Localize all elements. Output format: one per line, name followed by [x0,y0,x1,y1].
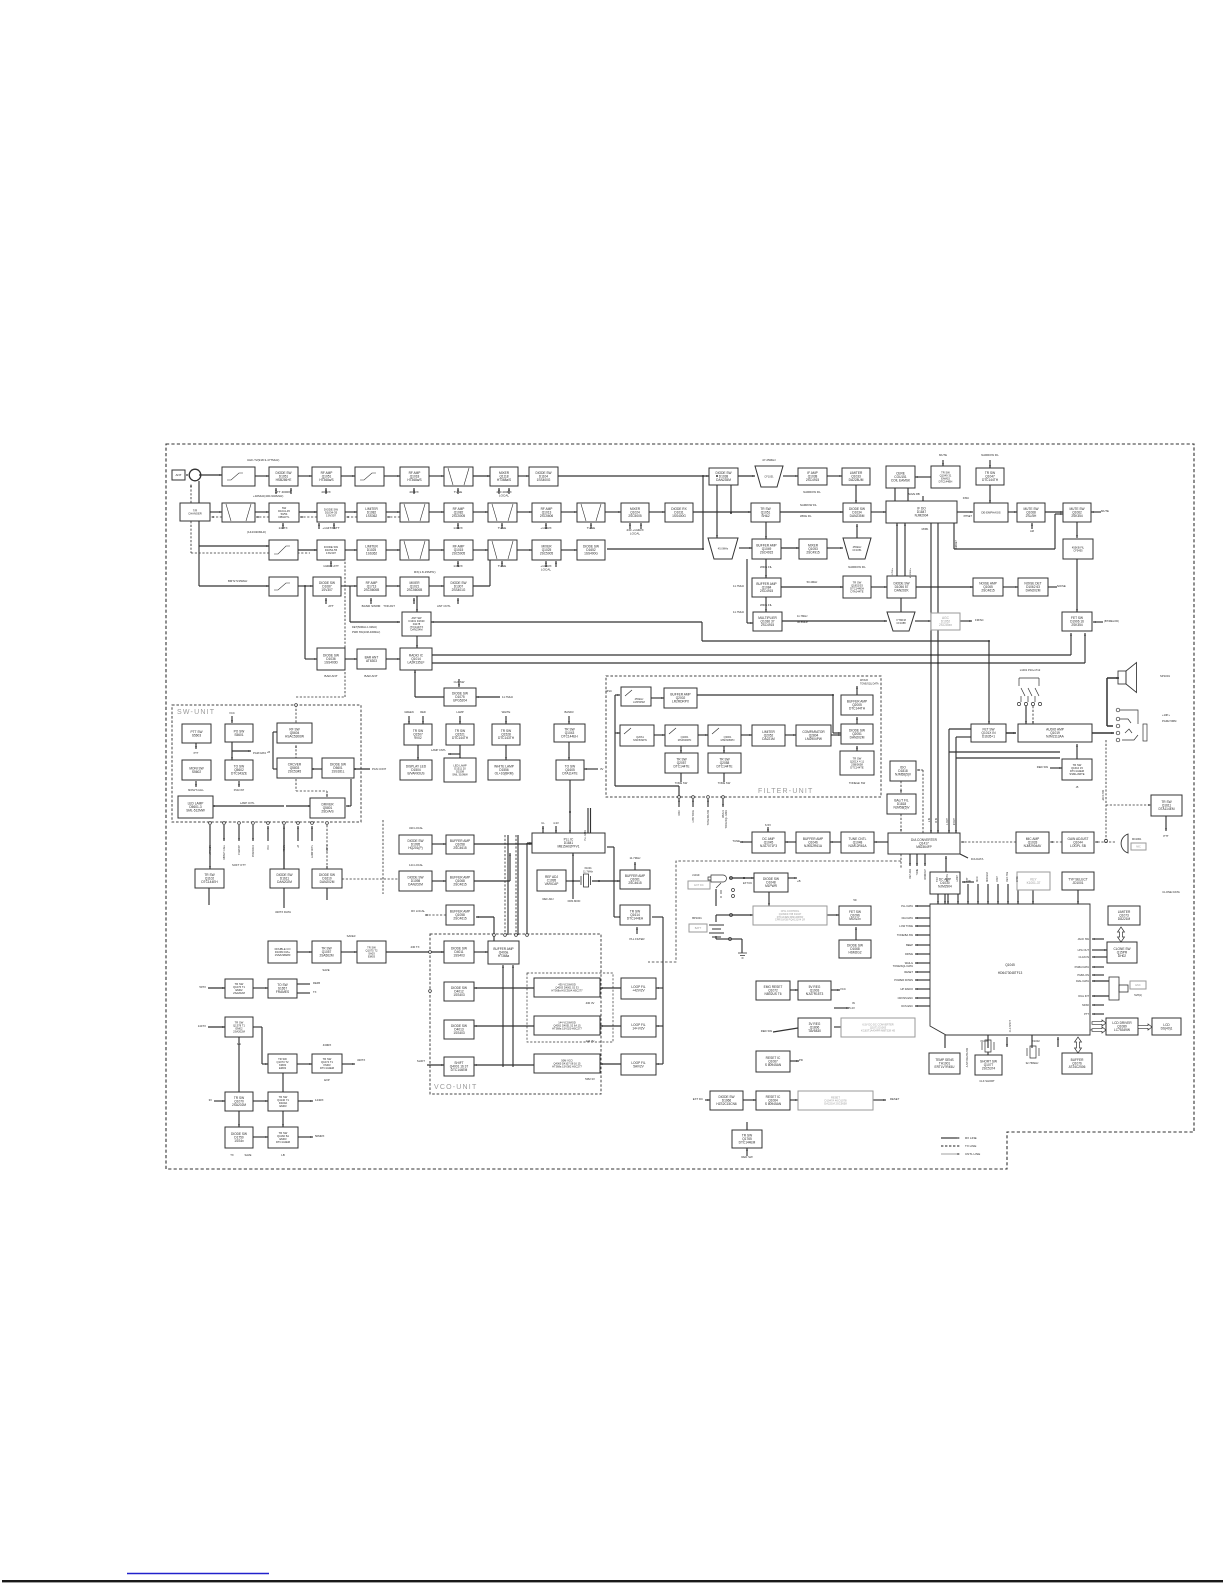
svg-text:DAN202M: DAN202M [408,883,423,887]
svg-text:DISC: DISC [678,810,681,816]
svg-text:EM03: EM03 [279,1104,287,1108]
svg-text:DTC143TH: DTC143TH [498,736,515,740]
svg-text:2SC5374: 2SC5374 [982,1067,996,1071]
svg-text:45.0MHz: 45.0MHz [718,547,729,551]
svg-text:MODEM: MODEM [986,872,989,882]
svg-text:CHANGER: CHANGER [188,512,201,516]
svg-text:DAN202M: DAN202M [850,736,865,740]
svg-text:EM03: EM03 [368,955,376,959]
svg-text:50MRX: 50MRX [315,1134,324,1138]
svg-text:430 TX: 430 TX [411,945,420,949]
svg-text:2SA202M: 2SA202M [232,1103,246,1107]
svg-text:430RX: 430RX [323,1043,332,1047]
svg-text:2SC4915: 2SC4915 [806,551,820,555]
svg-text:HD6473048TF13: HD6473048TF13 [998,971,1023,975]
svg-text:TXR ANT: TXR ANT [383,604,395,608]
svg-text:NJU7R15T3: NJU7R15T3 [806,992,824,996]
svg-text:DTA144TE: DTA144TE [850,590,863,594]
svg-text:MUTE: MUTE [1101,509,1109,513]
svg-text:EM03: EM03 [279,1066,287,1070]
svg-text:5D: 5D [853,899,856,902]
svg-text:DBGDTL: DBGDTL [279,515,290,519]
svg-text:1SS4x: 1SS4x [234,1139,244,1143]
svg-text:46.8MHz: 46.8MHz [797,620,808,624]
svg-text:CPRSU/GB PQA131V4 1R: CPRSU/GB PQA131V4 1R [775,919,805,922]
svg-text:EXT DC: EXT DC [743,882,752,885]
svg-text:SW-UNIT: SW-UNIT [177,709,215,716]
svg-text:HP RADIO: HP RADIO [901,987,914,991]
svg-text:SAVE: SAVE [245,1153,252,1157]
svg-text:PGN CONT: PGN CONT [372,767,387,771]
svg-text:2SC4615: 2SC4615 [453,883,467,887]
svg-text:VCC: VCC [840,987,846,991]
svg-text:PLL FILTER: PLL FILTER [629,937,644,941]
svg-text:BMT2 5/15MHz: BMT2 5/15MHz [228,579,248,583]
svg-text:430TX DATA: 430TX DATA [275,910,291,914]
svg-text:CNTL LINE: CNTL LINE [965,1152,980,1156]
svg-text:BP1001: BP1001 [692,916,702,920]
svg-text:PLL DATA: PLL DATA [584,830,587,841]
svg-text:DTC144TE: DTC144TE [850,766,864,770]
svg-text:TX: TX [230,1153,234,1157]
svg-text:ATT 400RX: ATT 400RX [275,490,291,494]
svg-text:TR 3V: TR 3V [284,845,286,852]
svg-text:TX3: TX3 [936,877,939,882]
svg-text:1SS403: 1SS403 [453,954,465,958]
svg-text:ANT CNTL: ANT CNTL [437,604,451,608]
svg-text:2SC5005: 2SC5005 [540,552,554,556]
svg-text:ATT KEY: ATT KEY [209,845,212,855]
svg-text:DA221M: DA221M [762,737,775,741]
svg-text:2SC4915: 2SC4915 [760,589,774,593]
svg-text:PGM2.5MM: PGM2.5MM [1162,719,1177,723]
svg-text:2SC4615: 2SC4615 [628,881,642,885]
svg-text:1SS362: 1SS362 [366,514,378,518]
svg-text:NB02US T6: NB02US T6 [765,992,782,996]
svg-text:DTC144EH: DTC144EH [201,880,218,884]
svg-text:TX LINE: TX LINE [965,1144,976,1148]
svg-text:TUNE: TUNE [732,839,740,843]
svg-text:2SC5005: 2SC5005 [452,514,466,518]
svg-text:DCS ENC: DCS ENC [901,1004,913,1008]
svg-text:PGM INT: PGM INT [234,789,245,792]
svg-text:47.25MHz: 47.25MHz [762,458,776,462]
svg-text:RX LOCAL: RX LOCAL [411,909,425,913]
svg-text:KC&5T1A434PR MBT528 H5: KC&5T1A434PR MBT528 H5 [861,1028,896,1032]
svg-text:BEEP: BEEP [906,943,913,947]
svg-text:1SS362: 1SS362 [366,552,378,556]
svg-text:DS(40)1: DS(40)1 [1161,1026,1173,1030]
svg-text:LOW TONE: LOW TONE [692,810,695,823]
svg-text:DAN235M: DAN235M [716,478,731,482]
svg-text:430 3V: 430 3V [586,1001,595,1005]
svg-text:MONI: MONI [1082,1003,1089,1007]
svg-text:2SK354: 2SK354 [1071,623,1083,627]
svg-text:PTT: PTT [1163,834,1169,838]
svg-text:UPG5204: UPG5204 [453,699,467,703]
svg-text:EXT DC: EXT DC [694,883,704,887]
svg-text:MSF509PN: MSF509PN [633,738,647,742]
svg-text:3V: 3V [209,1098,213,1102]
svg-text:VCC: VCC [229,711,235,715]
svg-text:AM DET: AM DET [955,539,958,548]
svg-text:SOFT OTT: SOFT OTT [232,863,246,867]
svg-text:DTC144EM: DTC144EM [739,1141,756,1145]
svg-text:ATT: ATT [328,604,334,608]
svg-text:GREEN: GREEN [404,710,413,714]
svg-text:SSML/ARTE: SSML/ARTE [1069,772,1084,776]
svg-text:X1005: X1005 [980,1039,988,1043]
svg-text:50TX: 50TX [199,985,206,989]
svg-text:DDS MOD: DDS MOD [568,899,581,903]
svg-text:MSF609PN: MSF609PN [678,738,692,742]
svg-text:400RX: 400RX [409,490,418,494]
svg-text:HSB286+E: HSB286+E [276,478,292,482]
svg-text:BAR ANT: BAR ANT [324,674,337,678]
svg-text:L1001 P10+1712: L1001 P10+1712 [1020,668,1041,672]
svg-text:S 80945AN: S 80945AN [765,1063,782,1067]
svg-text:2SK354: 2SK354 [1071,514,1083,518]
svg-text:1SV307: 1SV307 [326,551,336,555]
svg-text:DISC: DISC [963,496,969,500]
svg-text:NARROW FIL: NARROW FIL [803,490,821,494]
svg-text:EXT DC: EXT DC [693,1097,703,1101]
svg-text:2SC5606B: 2SC5606B [364,588,379,592]
svg-text:2SC4915: 2SC4915 [761,623,775,627]
svg-text:MONI/T-CALL: MONI/T-CALL [188,789,204,792]
svg-text:Q1045: Q1045 [1005,963,1015,967]
svg-text:MB15A02PFV1: MB15A02PFV1 [558,845,580,849]
svg-text:DA228UM: DA228UM [849,478,864,482]
svg-text:11.7MHz: 11.7MHz [630,856,642,860]
svg-text:2SC4615: 2SC4615 [981,589,995,593]
svg-text:CHG: CHG [1016,876,1019,882]
svg-text:DTC144TH: DTC144TH [982,478,999,482]
svg-text:R IN: R IN [936,818,938,823]
svg-text:NJU7071F3: NJU7071F3 [760,844,777,848]
svg-text:45.05MHz: 45.05MHz [910,568,912,578]
svg-text:DTC144EM: DTC144EM [276,1140,291,1144]
svg-text:HSAC5306W: HSAC5306W [285,735,304,739]
svg-text:M62364FP: M62364FP [916,845,932,849]
svg-text:LAMP CNTL: LAMP CNTL [240,801,255,805]
svg-text:11.7MHz: 11.7MHz [797,614,808,618]
svg-text:TUNE: TUNE [498,564,506,568]
svg-text:11.7MHz: 11.7MHz [502,695,514,699]
svg-text:NJM12R61A: NJM12R61A [848,844,867,848]
svg-text:DAN234M: DAN234M [411,628,423,632]
svg-text:LAMP: LAMP [456,710,464,714]
svg-text:6-5V: 6-5V [765,823,771,827]
svg-text:TUNE: TUNE [917,869,919,876]
svg-text:D1635+1: D1635+1 [982,735,995,739]
svg-text:TONE/SQL DATA: TONE/SQL DATA [860,683,879,686]
svg-text:+10P+: +10P+ [1162,713,1170,717]
svg-text:144RX: 144RX [315,1098,324,1102]
svg-text:CLK SHORT: CLK SHORT [979,1079,995,1083]
svg-text:DTC144EH: DTC144EH [939,480,953,484]
svg-text:HT368a/S: HT368a/S [407,478,421,482]
svg-text:LOW TONE: LOW TONE [899,924,913,928]
svg-text:1SS400G: 1SS400G [672,514,686,518]
svg-text:MOS/2x: MOS/2x [849,917,861,921]
svg-text:DTC144TH: DTC144TH [452,736,469,740]
svg-text:1SS400D: 1SS400D [324,661,338,665]
svg-text:LMF505M: LMF505M [633,700,645,704]
svg-text:DTC144EM: DTC144EM [320,1066,335,1070]
svg-text:MOB1: MOB1 [922,528,929,531]
svg-text:RX LINE: RX LINE [965,1136,977,1140]
svg-text:400RX: 400RX [321,490,330,494]
svg-text:WIDE FIL: WIDE FIL [760,603,773,607]
svg-text:NJM2113AA: NJM2113AA [1046,735,1065,739]
svg-text:1SV307: 1SV307 [321,588,333,592]
svg-text:TONE/ab SW: TONE/ab SW [849,781,866,785]
svg-text:LOGPL SB: LOGPL SB [1070,844,1086,848]
svg-text:+42V/2V: +42V/2V [632,988,645,992]
svg-text:LR2RDRPX: LR2RDRPX [672,700,690,704]
svg-text:2SC5005: 2SC5005 [628,514,642,518]
svg-text:FM/SC: FM/SC [975,618,984,622]
svg-text:NARROW FIL: NARROW FIL [981,453,999,457]
svg-text:PTT: PTT [194,752,199,755]
svg-text:X1002: X1002 [1032,1039,1040,1043]
svg-text:CF5455: CF5455 [1073,548,1083,552]
svg-text:LOCAL: LOCAL [541,568,551,572]
svg-text:(BT/MELOD): (BT/MELOD) [1104,619,1119,623]
svg-text:1SV307: 1SV307 [326,514,336,518]
svg-text:J1019: J1019 [692,873,700,877]
svg-text:BATT: BATT [695,926,702,930]
svg-text:LAMP CNTL: LAMP CNTL [311,844,314,858]
svg-text:HT368a HSC30/A HSC277: HT368a HSC30/A HSC277 [551,988,583,992]
svg-text:DTC144TE: DTC144TE [674,765,690,769]
svg-text:POWER DOWN: POWER DOWN [894,978,913,982]
svg-text:11.7MHz: 11.7MHz [733,584,745,588]
svg-text:DE-EMPHASIS: DE-EMPHASIS [981,511,1000,515]
svg-text:2SC4915: 2SC4915 [806,478,820,482]
svg-text:MSF60BPN: MSF60BPN [721,738,735,742]
svg-text:5.2V: 5.2V [849,1006,855,1010]
svg-text:PGM INT: PGM INT [239,844,241,854]
svg-text:SP1001: SP1001 [1160,674,1170,678]
svg-text:S 80945AN: S 80945AN [765,1102,782,1106]
svg-text:COIL EAMSK: COIL EAMSK [891,479,911,483]
svg-text:ANT: ANT [176,473,182,477]
svg-text:+B: +B [298,845,300,848]
svg-text:CF1051: CF1051 [764,475,774,479]
svg-text:NJM58(5)V: NJM58(5)V [895,773,912,777]
svg-text:DAN202M: DAN202M [277,880,292,884]
svg-text:BAR ANT: BAR ANT [364,674,377,678]
svg-text:ERTLV?R45U: ERTLV?R45U [935,1065,956,1069]
svg-text:PD: PD [799,1058,803,1062]
svg-text:VCO-UNIT: VCO-UNIT [434,1084,477,1091]
svg-text:UHF-T2(918.3-477MHz): UHF-T2(918.3-477MHz) [247,458,279,462]
svg-text:BAND SW8M: BAND SW8M [362,604,381,608]
svg-text:NJM2904AV: NJM2904AV [1024,844,1043,848]
svg-text:R OUT: R OUT [954,817,956,825]
svg-text:SML-512MW: SML-512MW [186,809,205,813]
svg-text:50M 3V: 50M 3V [585,1077,595,1081]
svg-text:2SA202M: 2SA202M [233,1030,246,1034]
svg-text:LPG OUT: LPG OUT [1078,948,1090,952]
svg-text:RESET: RESET [904,970,913,974]
svg-text:5AV/2V: 5AV/2V [633,1064,644,1068]
svg-text:TONE/SQL DATA: TONE/SQL DATA [725,810,728,829]
svg-text:2SC5005: 2SC5005 [452,552,466,556]
svg-text:VCC: VCC [268,845,270,850]
svg-text:AT6303: AT6303 [366,659,377,663]
svg-text:LB: LB [281,1153,285,1157]
svg-text:145RX: 145RX [453,564,462,568]
svg-text:S5601: S5601 [234,733,243,737]
svg-text:DIAL INT: DIAL INT [1078,994,1089,998]
svg-text:MC1801: MC1801 [1132,838,1142,841]
svg-text:PGBA ON: PGBA ON [1077,973,1089,977]
svg-text:WIDE FIL: WIDE FIL [800,514,812,518]
svg-text:NOISE: NOISE [1057,584,1066,588]
svg-text:S5603: S5603 [192,733,201,737]
svg-text:11.7MHz: 11.7MHz [733,610,745,614]
svg-text:RED SW: RED SW [741,1155,753,1159]
svg-text:WHITE: WHITE [946,874,949,882]
svg-text:144RX ATT: 144RX ATT [323,564,339,568]
svg-text:JACK SW: JACK SW [1102,789,1105,800]
svg-text:11.7MHz: 11.7MHz [892,568,894,577]
svg-text:TX: TX [313,990,317,994]
svg-text:2SC5606B: 2SC5606B [407,588,422,592]
svg-text:HT368a 1SV320 HSC277: HT368a 1SV320 HSC277 [552,1026,582,1030]
svg-text:140RX: 140RX [453,526,462,530]
svg-text:DA221M: DA221M [1118,917,1131,921]
svg-text:DTC343ZE: DTC343ZE [231,772,247,776]
svg-text:ROM DAT: ROM DAT [924,868,927,879]
svg-text:DISC: DISC [606,689,612,693]
svg-text:LAMP: LAMP [956,875,959,882]
svg-text:DTC144TE: DTC144TE [717,765,733,769]
svg-text:SAVE RB: SAVE RB [908,492,920,496]
svg-text:TUNE: TUNE [454,490,462,494]
svg-text:1SS400G: 1SS400G [584,552,598,556]
svg-text:DTA114TE: DTA114TE [562,772,577,776]
svg-text:CF1051: CF1051 [852,548,862,552]
svg-text:DTC144EM: DTC144EM [451,1068,468,1072]
svg-text:EXP: EXP [324,1078,330,1082]
svg-text:POW DATA: POW DATA [252,845,255,857]
svg-text:1SS403: 1SS403 [453,1031,465,1035]
svg-text:RESET: RESET [890,1097,900,1101]
svg-text:TONE SW: TONE SW [675,781,688,785]
svg-text:M1PWR: M1PWR [765,884,778,888]
svg-text:DISP: DISP [996,876,999,882]
svg-text:PHSET: PHSET [964,515,973,518]
svg-text:HT368a/S: HT368a/S [319,478,333,482]
svg-text:PWR SW(10M-430MHz): PWR SW(10M-430MHz) [352,630,380,634]
svg-text:LC75349W: LC75349W [1114,1028,1130,1032]
svg-text:3V: 3V [600,767,604,771]
svg-text:+B: +B [797,879,801,883]
svg-text:DET ADJ: DET ADJ [909,869,912,878]
svg-text:ATT: ATT [966,877,969,882]
svg-text:AT24C2506: AT24C2506 [1069,1065,1086,1069]
svg-text:CF1088: CF1088 [896,621,906,625]
svg-text:TONE/BA SW: TONE/BA SW [897,933,914,937]
svg-text:LAMP CNTL: LAMP CNTL [431,748,447,752]
svg-text:PGM DATA: PGM DATA [253,751,266,755]
svg-text:WHITE: WHITE [502,710,511,714]
svg-text:DAN235M: DAN235M [850,514,865,518]
svg-text:NJM2904: NJM2904 [938,885,952,889]
svg-text:L OUT: L OUT [947,817,949,824]
svg-text:DIAL DATA: DIAL DATA [1076,979,1089,983]
svg-text:JACK SW: JACK SW [1077,937,1089,941]
svg-text:D/A DATA: D/A DATA [902,916,914,920]
svg-text:CLGN IN: CLGN IN [1078,955,1089,959]
svg-text:HZS2C15CN6: HZS2C15CN6 [716,1102,737,1106]
svg-text:9V02: 9V02 [414,736,422,740]
svg-text:DTA114EM: DTA114EM [1159,807,1175,811]
svg-text:LOCAL: LOCAL [630,532,640,536]
svg-text:430TX: 430TX [327,845,329,852]
svg-text:DH02: DH02 [1118,954,1126,958]
svg-text:K1001-37: K1001-37 [1027,881,1041,885]
svg-text:SAVE: SAVE [322,968,329,972]
svg-text:JD1001: JD1001 [1073,881,1084,885]
svg-text:LA2R135LF: LA2R135LF [407,661,424,665]
svg-text:11.7MHz: 11.7MHz [583,871,594,874]
svg-text:TONE SW: TONE SW [718,781,731,785]
svg-text:144TX: 144TX [278,526,287,530]
svg-text:AM: AM [1030,529,1034,533]
svg-text:430 LOCAL: 430 LOCAL [409,826,424,830]
svg-text:DTC144EH: DTC144EH [627,917,644,921]
svg-text:HT368a: HT368a [498,954,510,958]
svg-text:+144RX: +144RX [540,526,551,530]
svg-text:HT368a/S: HT368a/S [497,478,511,482]
svg-text:MIC: MIC [1136,845,1141,848]
svg-text:TONE/WA SW: TONE/WA SW [707,809,710,825]
svg-text:144TX: 144TX [198,1024,206,1028]
svg-text:14+V/2V: 14+V/2V [632,1026,645,1030]
svg-text:DAN202M: DAN202M [1026,589,1041,593]
svg-text:2SC4915: 2SC4915 [760,551,774,555]
svg-text:TUNE: TUNE [498,526,506,530]
svg-text:2SC5345: 2SC5345 [288,770,302,774]
svg-text:CLONE DATA: CLONE DATA [1162,890,1180,894]
svg-text:FILTER-UNIT: FILTER-UNIT [758,788,813,795]
svg-text:2SA202M: 2SA202M [233,991,246,995]
svg-text:DRIVE: DRIVE [905,952,913,956]
svg-text:WIDE FIL: WIDE FIL [760,565,773,569]
svg-text:RX(1.8-15MHz): RX(1.8-15MHz) [414,570,436,574]
svg-text:PLL DATA: PLL DATA [901,904,913,908]
svg-text:TONE/SQL DATA: TONE/SQL DATA [893,964,913,968]
svg-text:2SC4615: 2SC4615 [453,917,467,921]
svg-text:HT368a 1SV382 HSC277: HT368a 1SV382 HSC277 [552,1064,582,1068]
svg-text:SML 310MW: SML 310MW [452,773,468,777]
svg-text:144 LOCAL: 144 LOCAL [409,863,424,867]
svg-text:PGBA DATA: PGBA DATA [1075,965,1090,969]
svg-text:TAV5830: TAV5830 [808,1029,821,1033]
svg-text:D/A DATA: D/A DATA [971,857,983,861]
svg-text:NJM2904: NJM2904 [915,514,929,518]
svg-text:1SS181L: 1SS181L [331,770,344,774]
svg-text:NARROW FIL: NARROW FIL [800,503,817,507]
svg-text:2SD/A/S: 2SD/A/S [321,810,333,814]
svg-text:2SC5606: 2SC5606 [540,514,554,518]
svg-text:SH&2: SH&2 [761,514,770,518]
